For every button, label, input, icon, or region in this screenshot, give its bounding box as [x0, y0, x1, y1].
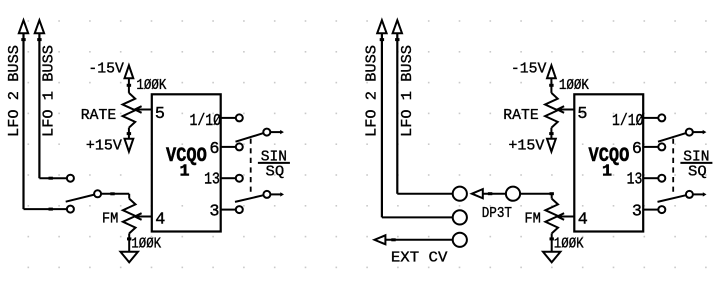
- switch SWLa lever: [236, 133, 264, 142]
- svg-text:SQ: SQ: [688, 165, 707, 181]
- tick L: [110, 192, 114, 195]
- pin 6 stub R: [643, 146, 658, 148]
- RATE wiper arrow to pin 5 R: [557, 106, 574, 113]
- svg-text:FM: FM: [102, 212, 119, 228]
- terminal circle pin 13 L: [236, 175, 243, 182]
- wire L -15V to RATE pot: [128, 78, 130, 93]
- switch SWRb lever: [658, 195, 687, 202]
- wire LFO 1 BUSS vertical L: [38, 33, 40, 178]
- wire DP3T wiper to FM pot R: [520, 193, 552, 195]
- switch SWRb pole circle: [686, 191, 693, 198]
- terminal circle pin 6 R: [658, 143, 665, 150]
- svg-text:1ØØK: 1ØØK: [554, 236, 584, 252]
- wire LFO2 to DP3T contact R: [382, 216, 453, 218]
- svg-text:FM: FM: [524, 212, 541, 228]
- svg-text:+15V: +15V: [86, 139, 122, 155]
- wire LFO 2 BUSS vertical R: [381, 33, 383, 217]
- potentiometer RATE 100K R: [545, 93, 558, 128]
- power arrow +15V R: [547, 139, 556, 152]
- tick L: [49, 177, 53, 180]
- bus arrow LFO 1 BUSS L: [35, 20, 44, 33]
- power arrow -15V R: [547, 65, 556, 78]
- svg-text:6: 6: [632, 140, 642, 159]
- bus arrow LFO 2 BUSS L: [19, 20, 28, 33]
- wire LFO 2 BUSS vertical L: [22, 33, 24, 209]
- switch SWLb output stub with arrow: [270, 192, 284, 196]
- pin 6 stub L: [221, 146, 236, 148]
- dashed gang line SWL: [250, 139, 252, 194]
- switch SWLa pole circle: [263, 129, 270, 136]
- pin 13 stub R: [643, 177, 658, 179]
- terminal circle pin 3 L: [236, 206, 243, 213]
- arrow EXT CV R: [375, 235, 386, 244]
- svg-text:LFO 2 BUSS: LFO 2 BUSS: [7, 45, 23, 137]
- svg-text:1/1Ø: 1/1Ø: [190, 112, 222, 131]
- power arrow -15V L: [125, 65, 134, 78]
- wire LFO 1 BUSS vertical R: [396, 33, 398, 193]
- terminal circle pin 13 R: [658, 175, 665, 182]
- switch SWLb pole circle: [263, 191, 270, 198]
- switch SWLa output stub with arrow: [270, 130, 284, 134]
- svg-text:LFO 2 BUSS: LFO 2 BUSS: [364, 45, 380, 137]
- DP3T contact circle EXT CV R: [453, 233, 467, 247]
- svg-text:1ØØK: 1ØØK: [131, 236, 161, 252]
- svg-text:5: 5: [577, 105, 587, 124]
- svg-text:3: 3: [632, 202, 642, 221]
- svg-text:EXT CV: EXT CV: [391, 250, 448, 266]
- switch SW1 contact circle (LFO2) L: [67, 206, 74, 213]
- switch SWRa pole circle: [686, 129, 693, 136]
- switch SW1 pole circle L: [94, 190, 101, 197]
- junction tick L: [127, 237, 131, 240]
- svg-text:LFO 1 BUSS: LFO 1 BUSS: [42, 45, 58, 137]
- svg-text:LFO 1 BUSS: LFO 1 BUSS: [400, 45, 416, 137]
- tick R: [395, 38, 399, 41]
- tick L: [21, 38, 25, 41]
- wire SW1 pole to FM pot L: [101, 193, 129, 195]
- tick L: [49, 208, 53, 211]
- svg-text:5: 5: [155, 105, 165, 124]
- pin 1/10 stub R: [643, 117, 658, 119]
- wire R FM pot to ground: [551, 233, 553, 251]
- wire L into FM pot: [128, 194, 130, 199]
- svg-text:1: 1: [602, 162, 612, 181]
- svg-text:1: 1: [179, 162, 189, 181]
- potentiometer FM 100K L: [123, 199, 136, 234]
- terminal circle pin 1/10 R: [658, 114, 665, 121]
- tick L: [37, 38, 41, 41]
- tick R: [488, 192, 492, 195]
- SIN/SQ divider R: [680, 162, 712, 164]
- svg-text:13: 13: [204, 171, 220, 190]
- terminal circle pin 1/10 L: [236, 114, 243, 121]
- junction tick R: [549, 84, 553, 87]
- svg-text:1/1Ø: 1/1Ø: [612, 112, 644, 131]
- wire EXT CV R: [386, 239, 453, 241]
- DP3T wiper circle R: [506, 187, 520, 201]
- svg-text:RATE: RATE: [503, 108, 538, 124]
- ground R: [543, 252, 560, 262]
- switch SW1 lever L: [66, 195, 95, 202]
- junction tick R: [550, 237, 554, 240]
- FM wiper arrow to pin 4 R: [557, 213, 574, 220]
- DP3T contact circle LFO1 R: [453, 187, 467, 201]
- bus arrow LFO 2 BUSS R: [377, 20, 386, 33]
- DP3T contact circle LFO2 R: [453, 210, 467, 224]
- svg-text:13: 13: [627, 171, 643, 190]
- terminal circle pin 6 L: [236, 143, 243, 150]
- DP3T selector arrow R: [472, 189, 483, 198]
- pin 3 stub L: [221, 209, 236, 211]
- switch SWRb output stub with arrow: [693, 192, 707, 196]
- svg-text:DP3T: DP3T: [482, 206, 513, 222]
- svg-text:+15V: +15V: [508, 139, 544, 155]
- svg-text:1ØØK: 1ØØK: [136, 78, 166, 94]
- svg-text:1ØØK: 1ØØK: [559, 78, 589, 94]
- wire R into FM pot: [551, 194, 553, 199]
- wire L FM pot to ground: [128, 233, 130, 251]
- tick R: [391, 238, 395, 241]
- junction tick R: [549, 132, 553, 135]
- tick R: [380, 38, 384, 41]
- pin 13 stub L: [221, 177, 236, 179]
- op-amp/IC UR VCQO 1 body: [574, 94, 643, 231]
- wire selector arrow to wiper R: [483, 193, 506, 195]
- op-amp/IC UL VCQO 1 body: [152, 94, 221, 231]
- ground L: [121, 252, 138, 262]
- switch SW1 contact circle (LFO1) L: [67, 175, 74, 182]
- pin 1/10 stub L: [221, 117, 236, 119]
- dashed gang line SWR: [672, 139, 674, 194]
- potentiometer RATE 100K L: [123, 93, 136, 128]
- switch SWRa lever: [658, 133, 686, 142]
- svg-text:4: 4: [155, 211, 165, 230]
- svg-text:-15V: -15V: [88, 62, 124, 78]
- wire LFO1 to DP3T contact R: [397, 193, 452, 195]
- wire R -15V to RATE pot: [550, 78, 552, 93]
- RATE wiper arrow to pin 5 L: [135, 106, 152, 113]
- svg-text:SQ: SQ: [266, 165, 285, 181]
- bus arrow LFO 1 BUSS R: [393, 20, 402, 33]
- svg-text:4: 4: [578, 211, 588, 230]
- power arrow +15V L: [125, 139, 134, 152]
- corner tick R: [550, 192, 554, 195]
- wire LFO2 to switch contact L: [24, 208, 67, 210]
- wire L RATE pot to +15V: [128, 128, 130, 139]
- svg-text:-15V: -15V: [511, 62, 547, 78]
- wire LFO1 to switch contact L: [39, 177, 67, 179]
- FM wiper arrow to pin 4 L: [135, 213, 152, 220]
- terminal circle pin 3 R: [658, 206, 665, 213]
- pin 3 stub R: [643, 209, 658, 211]
- svg-text:6: 6: [209, 140, 219, 159]
- switch SWLb lever: [235, 195, 264, 202]
- junction tick L: [127, 132, 131, 135]
- svg-text:RATE: RATE: [81, 108, 116, 124]
- junction tick L: [127, 84, 131, 87]
- switch SWRa output stub with arrow: [693, 130, 707, 134]
- SIN/SQ divider L: [258, 162, 290, 164]
- svg-text:3: 3: [209, 202, 219, 221]
- potentiometer FM 100K R: [545, 199, 558, 234]
- wire R RATE pot to +15V: [550, 128, 552, 139]
